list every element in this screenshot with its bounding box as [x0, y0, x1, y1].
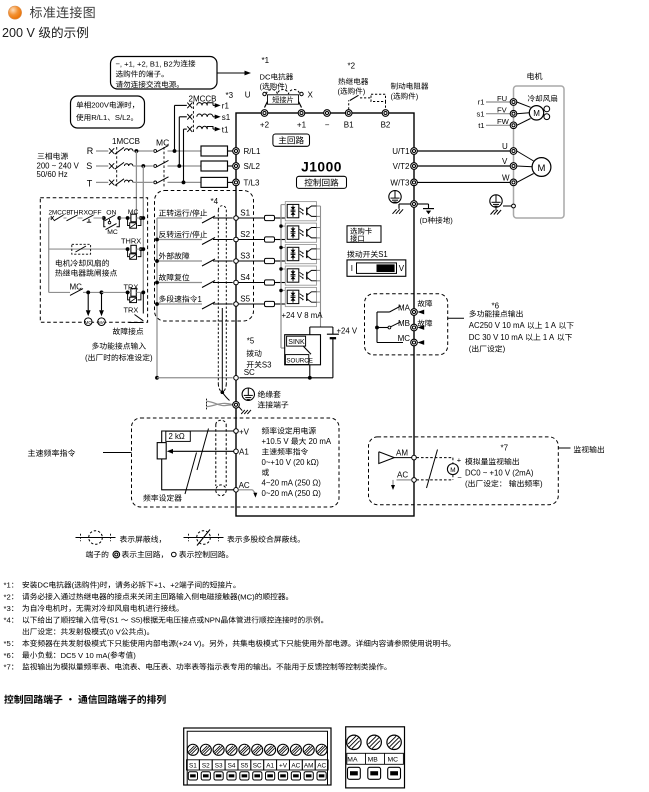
svg-text:(: (	[469, 345, 472, 354]
svg-text:(0 V: (0 V	[107, 627, 122, 636]
svg-text:M: M	[538, 163, 546, 174]
svg-text:): )	[150, 353, 153, 362]
svg-text:V: V	[502, 157, 508, 166]
svg-text:0~20 mA (250 Ω): 0~20 mA (250 Ω)	[262, 489, 322, 498]
svg-text:s1: s1	[477, 109, 485, 118]
svg-text:1 A: 1 A	[545, 321, 557, 330]
svg-text:FU: FU	[497, 94, 507, 103]
svg-text:*6: *6	[492, 302, 500, 311]
svg-text:J1000: J1000	[301, 160, 342, 175]
svg-text:T/L3: T/L3	[244, 178, 261, 187]
svg-text:*5: *5	[247, 337, 255, 346]
svg-text:AC: AC	[291, 763, 300, 770]
svg-text:(: (	[465, 479, 468, 488]
svg-text:2MCCB: 2MCCB	[49, 210, 71, 217]
svg-text:+24 V 8 mA: +24 V 8 mA	[282, 311, 324, 320]
svg-text:+10.5 V: +10.5 V	[262, 437, 290, 446]
svg-text:): )	[540, 479, 543, 488]
svg-text:200 V: 200 V	[2, 26, 36, 40]
svg-text:A1: A1	[239, 448, 249, 457]
svg-text:MC: MC	[107, 229, 118, 236]
svg-text:4~20 mA (250 Ω): 4~20 mA (250 Ω)	[262, 479, 322, 488]
svg-text:FW: FW	[497, 117, 510, 126]
svg-text:1 A: 1 A	[543, 333, 555, 342]
svg-text:MA: MA	[398, 303, 411, 312]
svg-text:THRX: THRX	[121, 236, 141, 245]
svg-text:S5: S5	[240, 294, 250, 303]
svg-text:*3: *3	[226, 91, 234, 100]
svg-text:+1: +1	[297, 120, 307, 129]
svg-text:1: 1	[198, 295, 202, 304]
svg-text:): )	[133, 651, 136, 660]
svg-text:MC: MC	[398, 334, 411, 343]
svg-text:V/T2: V/T2	[393, 162, 410, 171]
svg-text:THRX: THRX	[70, 210, 89, 217]
svg-text:NPN: NPN	[204, 616, 220, 625]
svg-text:X: X	[308, 90, 314, 99]
svg-text:−, +1, +2, B1, B2: −, +1, +2, B1, B2	[116, 59, 173, 68]
svg-text:S/L2: S/L2	[244, 162, 261, 171]
svg-text:TRX: TRX	[124, 305, 139, 314]
svg-text:−: −	[325, 120, 330, 129]
svg-text:AC: AC	[239, 481, 250, 490]
svg-text:W: W	[502, 174, 510, 183]
svg-text:*4: *4	[211, 197, 219, 206]
svg-text:(+24 V): (+24 V)	[176, 639, 202, 648]
svg-text:S3: S3	[262, 360, 272, 369]
svg-text:t1: t1	[478, 121, 484, 130]
svg-text:S/L2: S/L2	[115, 113, 131, 122]
svg-text:(MC): (MC)	[238, 592, 256, 601]
svg-text:U/T1: U/T1	[392, 147, 410, 156]
svg-text:S3: S3	[240, 251, 250, 260]
svg-text:−: −	[457, 473, 462, 482]
svg-text:W/T3: W/T3	[390, 178, 410, 187]
svg-text:I: I	[351, 264, 353, 273]
svg-text:SC: SC	[244, 368, 255, 377]
svg-text:*1: *1	[4, 581, 11, 590]
svg-text:SC: SC	[253, 763, 262, 770]
svg-text:S2: S2	[240, 230, 250, 239]
svg-text:AC: AC	[397, 471, 408, 480]
svg-text:+2: +2	[260, 120, 270, 129]
svg-text:DC: DC	[37, 581, 49, 590]
svg-text:S1: S1	[189, 763, 197, 770]
svg-text:s1: s1	[222, 113, 231, 122]
svg-text:*2: *2	[348, 62, 356, 71]
svg-text:*2: *2	[4, 592, 11, 601]
svg-text:(: (	[72, 581, 75, 590]
svg-text:DC: DC	[260, 73, 271, 82]
svg-text:*5: *5	[4, 639, 11, 648]
svg-text:DC 30 V 10 mA: DC 30 V 10 mA	[469, 333, 524, 342]
svg-text:MA: MA	[98, 320, 106, 325]
svg-text:(: (	[85, 353, 88, 362]
svg-text:MC: MC	[85, 320, 93, 325]
svg-text:MC: MC	[388, 757, 399, 764]
svg-text:*4: *4	[4, 616, 12, 625]
svg-text:U: U	[502, 142, 508, 151]
svg-text:MA: MA	[347, 757, 358, 764]
svg-text:S5): S5)	[131, 616, 143, 625]
svg-text:S: S	[86, 161, 92, 171]
svg-text:S2: S2	[202, 763, 210, 770]
svg-text:R/L1: R/L1	[244, 147, 261, 156]
svg-text:*6: *6	[4, 651, 11, 660]
svg-text:+V: +V	[279, 763, 288, 770]
svg-text:+: +	[457, 455, 462, 464]
svg-text:SOURCE: SOURCE	[286, 357, 312, 364]
svg-text:S3: S3	[215, 763, 223, 770]
svg-text:A1: A1	[266, 763, 274, 770]
svg-text:r1: r1	[478, 98, 485, 107]
svg-text:+2: +2	[170, 581, 179, 590]
svg-text:DC0 ~ +10 V (2mA): DC0 ~ +10 V (2mA)	[465, 468, 534, 477]
svg-text:B1: B1	[344, 120, 354, 129]
svg-text:r1: r1	[222, 102, 230, 111]
svg-text:AM: AM	[396, 448, 408, 457]
svg-text:+24 V: +24 V	[337, 327, 358, 336]
svg-text:20 mA: 20 mA	[309, 437, 332, 446]
svg-text:2MCCB: 2MCCB	[189, 95, 217, 104]
svg-text:S5: S5	[241, 763, 249, 770]
svg-text:AC250 V 10 mA: AC250 V 10 mA	[469, 321, 526, 330]
svg-text:50/60 Hz: 50/60 Hz	[37, 170, 68, 179]
svg-text:1MCCB: 1MCCB	[112, 137, 140, 146]
svg-text:AM: AM	[304, 763, 314, 770]
svg-text:U: U	[245, 90, 251, 99]
svg-text:S1: S1	[240, 208, 250, 217]
svg-text:DC5 V 10 mA(: DC5 V 10 mA(	[61, 651, 111, 660]
svg-text:*3: *3	[4, 604, 11, 613]
svg-text:B2: B2	[381, 120, 391, 129]
svg-text:*1: *1	[262, 56, 270, 65]
svg-text:): )	[97, 581, 100, 590]
svg-text:+1: +1	[154, 581, 163, 590]
svg-text:*7: *7	[501, 444, 509, 453]
svg-text:SINK: SINK	[288, 339, 305, 346]
svg-text:V: V	[399, 264, 405, 273]
svg-text:0~+10 V (20 kΩ): 0~+10 V (20 kΩ)	[262, 458, 320, 467]
svg-text:MC: MC	[128, 209, 139, 216]
svg-text:MB: MB	[368, 757, 379, 764]
svg-text:M: M	[533, 109, 540, 118]
svg-text:FV: FV	[497, 106, 508, 115]
svg-text:): )	[144, 627, 147, 636]
svg-text:AC: AC	[317, 763, 326, 770]
svg-text:200V: 200V	[91, 101, 110, 110]
svg-text:R/L1: R/L1	[91, 113, 107, 122]
svg-text:S1: S1	[378, 250, 388, 259]
svg-text:(D: (D	[420, 216, 429, 225]
svg-text:S4: S4	[240, 273, 250, 282]
svg-text:OFF: OFF	[88, 210, 102, 217]
svg-text:MB: MB	[398, 319, 410, 328]
svg-text:R: R	[87, 146, 94, 156]
svg-text:t1: t1	[222, 125, 229, 134]
svg-text:T: T	[87, 178, 93, 188]
svg-text:ON: ON	[106, 210, 116, 217]
svg-text:+V: +V	[239, 427, 250, 436]
svg-text:*7: *7	[4, 663, 11, 672]
svg-text:M: M	[450, 467, 455, 474]
svg-text:): )	[503, 345, 506, 354]
svg-text:S4: S4	[228, 763, 236, 770]
svg-text:2 kΩ: 2 kΩ	[169, 432, 185, 441]
svg-text:(S1: (S1	[107, 616, 119, 625]
